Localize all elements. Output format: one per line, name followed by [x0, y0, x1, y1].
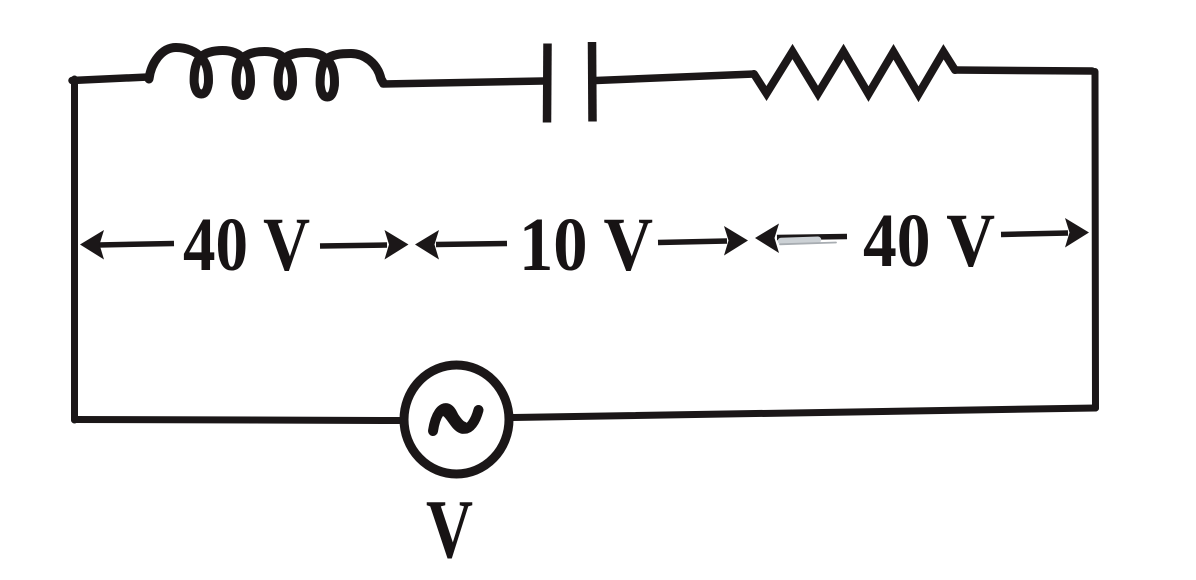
svg-text:10 V: 10 V: [519, 203, 653, 287]
wire: inductor to capacitor: [383, 81, 543, 84]
svg-text:40 V: 40 V: [863, 199, 995, 283]
arrow left (40V dim 3, with correction streak): [755, 224, 847, 254]
wire: bottom right segment (corner to source): [513, 408, 1096, 418]
wire: right vertical: [1092, 72, 1100, 409]
whiteout streak over dim-3 left arrow: [781, 240, 818, 241]
wire: top-left horizontal to inductor: [72, 77, 148, 81]
resistor R1 (zigzag): [754, 52, 955, 95]
svg-text:40 V: 40 V: [183, 203, 310, 287]
arrow right (40V dim 3): [1001, 218, 1089, 248]
capacitor C1 left plate: [543, 44, 552, 123]
arrow right (40V dim 1): [320, 230, 409, 260]
inductor L1 (coil, 5 humps 4 loops): [149, 48, 383, 98]
wire: bottom left segment (source to left corner): [75, 420, 401, 421]
wire: left vertical: [71, 79, 78, 420]
capacitor C1 right plate: [588, 42, 597, 122]
AC sine symbol (tilde): [433, 408, 479, 431]
arrow right (10V dim 2): [658, 226, 748, 256]
AC source V (circle): [404, 365, 509, 474]
arrow left (10V dim 2): [415, 230, 507, 260]
wire: capacitor to resistor: [596, 74, 754, 81]
wire: resistor to top-right corner: [955, 70, 1092, 71]
arrow left (40V dim 1): [80, 230, 174, 260]
svg-text:V: V: [426, 483, 473, 576]
